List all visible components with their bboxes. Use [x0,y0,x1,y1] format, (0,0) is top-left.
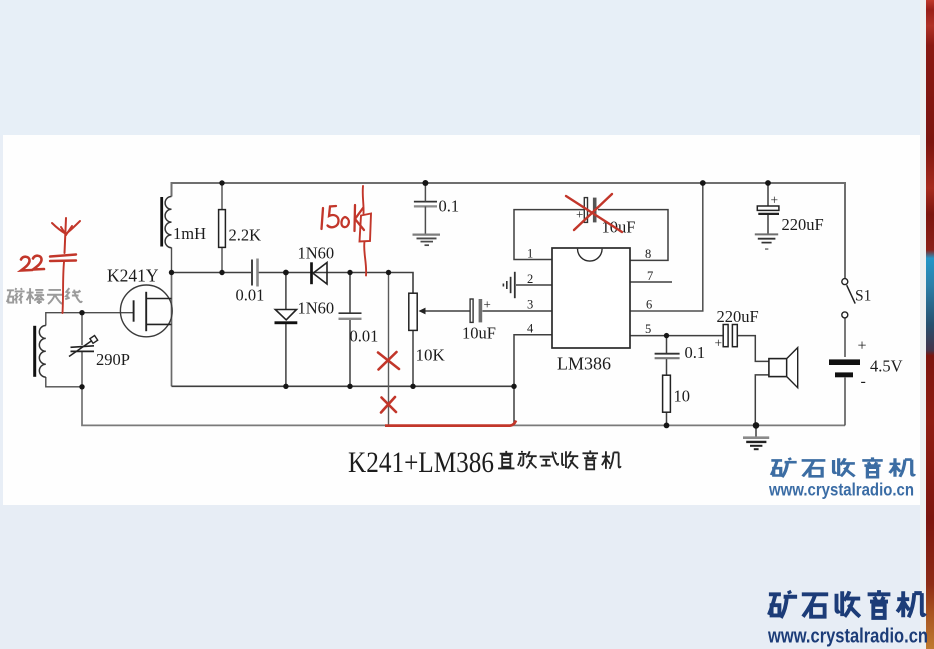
wire pin5 run [630,335,723,337]
capacitor C6 0.1 supply plates [414,201,437,203]
potentiometer RP wiper arrow [419,308,426,315]
wire pot bottom lead [412,330,414,386]
node speaker ground [753,422,760,429]
wire top supply rail [172,183,846,279]
wire detector rail [172,385,515,387]
transistor Q1 source lead [146,323,171,325]
annotation handwritten 150K [322,205,365,231]
svg-text:290P: 290P [96,350,130,369]
white schematic panel [3,135,922,505]
node gate junction [79,310,84,315]
node zobel ground [664,423,670,429]
node supply at pin6 [700,180,706,186]
svg-text:220uF: 220uF [782,215,824,234]
annotation red ground segment [385,421,516,426]
capacitor C7 220uF filter top plate [757,206,779,210]
svg-text:10K: 10K [416,346,446,365]
speaker LS1 cone [787,348,798,388]
page background bottom strip [0,505,934,649]
svg-text:0.1: 0.1 [439,197,460,216]
capacitor C2 0.01 coupling plates [251,260,253,286]
annotation red lead above box [362,186,365,214]
variable capacitor C1 290P plates [71,346,95,348]
svg-text:www.crystalradio.cn: www.crystalradio.cn [767,626,928,648]
adjacent photo edge stripe [926,0,934,649]
svg-text:S1: S1 [855,288,871,305]
svg-text:1mH: 1mH [173,224,206,243]
node supply at 2.2K top [219,180,224,185]
svg-text:7: 7 [647,269,653,283]
svg-text:10uF: 10uF [462,324,496,343]
node supply at C7 [765,180,771,186]
svg-text:4.5V: 4.5V [870,357,903,376]
wire coupling cap to pot [259,273,414,294]
diode D1 1N60 series cathode bar [310,262,313,284]
annotation red capacitor [50,255,76,262]
svg-text:3: 3 [527,298,533,312]
annotation red resistor box [360,214,372,242]
label antenna chinese 磁棒天线 [7,288,82,304]
svg-text:+: + [858,338,867,355]
wire pot wiper to 10uF [424,310,470,312]
capacitor C4 10uF input plates [470,299,473,322]
transistor Q1 drain lead [146,298,171,300]
svg-text:0.01: 0.01 [350,327,379,346]
wire 2.2K upper lead [221,183,223,210]
page background top strip [0,0,934,136]
node pin5 zobel [664,333,669,338]
caption chinese 直放式收音机 [498,450,621,469]
capacitor C8 220uF output plates [723,325,728,347]
inductor L1 1mH windings [165,197,171,248]
light gutter right of panel [920,0,927,649]
annotation red antenna sketch [52,218,80,253]
svg-text:K241Y: K241Y [107,266,159,286]
wire drain-source vertical [171,273,173,387]
transistor Q1 channel bar [145,292,147,331]
wire pin6 to supply [630,183,703,311]
wire battery to ground rail [844,378,846,426]
svg-text:2: 2 [527,272,533,286]
watermark small 矿石收音机 [771,457,914,477]
svg-text:1: 1 [527,247,533,261]
battery BT1 positive plate [829,359,860,365]
svg-text:1N60: 1N60 [298,299,335,318]
svg-text:+: + [771,193,779,208]
diode D1 1N60 series triangle [313,263,327,285]
wire shunt diode upper lead [285,273,287,310]
capacitor C3 0.01 bypass plates [339,312,362,314]
wire pin7 stub [630,281,672,283]
annotation red X on drop upper [378,352,399,370]
node pin4 junction [511,384,516,389]
capacitor C5 10uF feedback plates [584,198,587,223]
annotation red wire below cap [63,262,65,313]
ground main bottom [743,438,769,450]
node shunt diode top [283,270,289,276]
node bypass cap top [347,270,352,275]
svg-text:220uF: 220uF [717,307,759,326]
node dots [79,180,771,429]
annotation red lead below box [364,242,366,276]
op-amp U1 LM386 body [552,248,630,348]
svg-text:6: 6 [646,298,652,312]
wire filter cap lower lead [767,214,769,234]
capacitor C9 0.1 zobel plates [655,353,680,355]
node pot bottom [410,384,415,389]
annotation handwritten 22 [21,256,44,271]
node bypass cap bottom [347,384,352,389]
svg-text:www.crystalradio.cn: www.crystalradio.cn [768,480,914,500]
wire pin8 feedback loop [598,210,668,261]
annotation red X on drop lower [381,397,396,413]
wire tuning cap branch upper [81,313,83,345]
svg-text:8: 8 [645,247,651,261]
diode D2 1N60 shunt cathode bar [275,321,298,324]
svg-text:LM386: LM386 [557,354,611,374]
ground filter cap [755,234,778,242]
wire shunt diode lower lead [285,324,287,387]
op-amp U1 notch [578,249,603,261]
wire speaker bottom to ground rail [755,375,769,426]
wire speaker ground stub [755,425,757,437]
wire zobel 0.1 upper [666,336,668,353]
wire pin2 lead [516,284,552,286]
inductor L1 1mH core [160,197,163,247]
inductor L2 antenna coil windings [39,326,45,378]
svg-text:K241+LM386: K241+LM386 [348,446,494,479]
wire 10uF to pin3 [482,310,552,312]
wire drain output run [172,272,252,274]
svg-text:4: 4 [527,322,534,336]
wire C6 leads [424,183,426,202]
svg-text:0.1: 0.1 [685,343,706,362]
wire filter cap upper lead [767,183,769,206]
switch S1 blade [847,285,856,303]
wire zobel middle [666,359,668,376]
node drain junction [169,270,174,275]
variable capacitor C1 arrow [69,341,92,357]
svg-text:+: + [484,297,491,312]
switch S1 top contact [842,279,848,285]
svg-text:-: - [861,373,866,390]
node 2.2K bottom [219,270,224,275]
wire bypass cap 0.01 lower [349,319,351,386]
wire 220uF out to speaker top [738,336,769,362]
node crossed drop top [386,270,391,275]
svg-text:10uF: 10uF [602,218,636,237]
svg-text:0.01: 0.01 [236,286,265,305]
wire antenna coil bottom [46,377,82,387]
wire pin1 feedback loop [514,210,584,260]
ground pin2 sideways [503,272,514,298]
speaker LS1 driver [769,359,787,377]
svg-text:+: + [576,207,583,222]
wire tuning cap branch lower [81,352,83,387]
node shunt diode bottom [283,384,288,389]
wire bypass cap 0.01 upper [349,273,351,313]
svg-text:10: 10 [674,387,691,406]
potentiometer RP 10K body [409,293,417,330]
ground supply bypass [413,235,441,246]
diode D2 1N60 shunt triangle [275,310,296,320]
svg-text:+: + [715,336,723,351]
wire bottom ground rail [82,387,845,425]
node supply at C6 [422,180,428,186]
wire 2.2K lower lead [221,247,223,272]
wire switch to battery [844,318,846,357]
svg-text:-: - [765,240,769,255]
transistor Q1 K241Y body [120,285,172,337]
wire zobel 10 lower [666,412,668,425]
wire crossed-out drop [388,273,390,426]
battery BT1 negative plate [835,372,853,377]
transistor Q1 gate bar [133,300,135,321]
switch S1 bottom contact [842,312,848,318]
wire 1mH lower lead [171,248,173,273]
inductor L2 antenna coil core [33,326,36,377]
capacitor C7 bottom plate [758,213,779,215]
wire pin4 drop [514,335,552,425]
node coil bottom junction [79,384,84,389]
watermark large 矿石收音机 [769,590,925,618]
resistor R1 2.2K body [219,210,226,248]
wire gate node horizontal [46,313,134,326]
annotation red X over feedback cap [566,194,622,232]
svg-text:1N60: 1N60 [298,244,335,263]
svg-text:2.2K: 2.2K [229,226,262,245]
resistor R2 10 body [663,375,671,412]
svg-text:5: 5 [645,322,651,336]
